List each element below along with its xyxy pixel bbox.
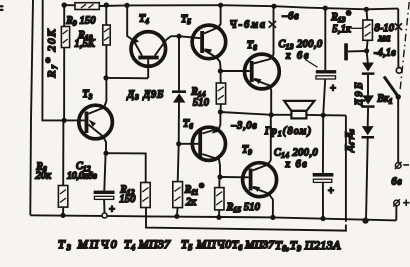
wire T3 emitter to R12 [106,153,146,182]
wire T4 base node [103,75,108,80]
svg-text:Т4 МП37: Т4 МП37 [124,237,171,252]
meter break x 4-6ma [269,21,277,28]
svg-text:Т9: Т9 [242,145,252,157]
resistor R14 (510) [216,71,225,112]
svg-text:+: + [109,205,116,216]
resistor R12 (150) [141,183,151,208]
chassis bar [344,43,366,60]
svg-text:5,1к: 5,1к [333,24,352,35]
node A T5 emitter / R14 / T8 base [218,68,223,73]
diode D3 (D9B) [172,36,186,144]
svg-text:20к: 20к [36,171,52,182]
diode D6 (D9B) [362,126,375,224]
svg-text:R7* 20К: R7* 20К [44,27,59,78]
svg-text:Д3 Д9Б: Д3 Д9Б [127,90,165,102]
transistor T6 (MP37) [192,112,225,177]
meter break x 8-10ma [395,23,402,30]
transistor T4 (MP37) [127,5,179,78]
wire top rail left stub [64,4,75,6]
wire switch to minus terminal [397,97,399,163]
transistor T8 (P213A) [245,6,280,115]
svg-text:+: + [328,186,335,197]
wire plus terminal to bottom rail [395,206,397,221]
svg-text:6в: 6в [392,177,403,188]
svg-text:Гр1(8ом): Гр1(8ом) [264,126,312,138]
wire bottom common rail [30,215,396,220]
wire output node to feedback drop [323,114,346,116]
svg-text:Т5: Т5 [181,14,191,26]
wire input lead to T3 base [42,0,84,120]
capacitor C13 (200,0x6v) [316,6,336,116]
switch Vk1 [384,68,402,100]
svg-text:R11*: R11* [184,183,204,197]
node top rail R7 tap [61,2,66,7]
diode D4 (D9B) [362,51,375,96]
resistor R13* (5,1k) [363,7,373,51]
node T6 collector / T9 base / R15 [217,174,222,179]
terminal minus [395,162,409,170]
node B R14 bottom / T6 emitter / output line [218,109,223,114]
resistor R9 (150) in top rail [75,3,99,10]
svg-text:Вк1: Вк1 [378,94,393,106]
crossing gap feedback over rail right [344,222,348,225]
resistor R11* (2k) [173,144,183,219]
svg-text:-4,1в: -4,1в [374,48,396,59]
svg-text:Т8: Т8 [247,40,257,52]
node T3 base junction [62,118,67,123]
left cropped fragment [0,5,3,11]
node T4 collector / T5 base / D3 [176,34,181,39]
svg-text:С14 200,0: С14 200,0 [274,148,318,160]
wire top rail corner to switch [397,9,399,68]
node output T8e/T9c/speaker [269,112,274,117]
resistor R7* (20K) from top rail [61,5,69,120]
svg-text:–6в: –6в [282,11,300,22]
wire left outer vertical to bottom rail [30,0,33,215]
wire top rail [99,5,398,9]
svg-text:+: + [330,84,337,95]
resistor R8 (20k) T3 base to rail [58,120,67,218]
svg-text:Т5 МПЧ0: Т5 МПЧ0 [181,237,232,252]
svg-text:Т6: Т6 [183,119,193,131]
wire T6 collector to T9 base [220,176,249,178]
terminal plus [393,199,409,207]
node speaker / C13 / C14 / feedback [321,113,326,118]
capacitor C14 (200,0x6v) [313,115,334,221]
svg-text:R15 510: R15 510 [226,202,260,214]
wire output node to speaker [271,114,291,116]
wire node A to T8 base [220,70,249,72]
node top rail T4 emitter [124,3,129,8]
svg-text:2к: 2к [186,197,196,208]
transistor T5 (MP40) [192,5,226,71]
svg-text:Д9Б: Д9Б [354,80,365,107]
svg-text:Д4–Д6: Д4–Д6 [344,130,356,153]
wire feedback R12 bottom to output node (crosses rail) [146,115,346,230]
wire to T5 base [179,36,200,38]
node ring terminal below C12 [102,213,107,218]
svg-text:х 6в: х 6в [285,159,309,170]
svg-text:1,5К: 1,5К [75,39,97,50]
node top rail T8 collector [271,4,276,9]
wire T6 base lead [179,143,199,145]
leader C13 label [305,60,317,68]
svg-text:10,0х6в: 10,0х6в [67,172,97,182]
node T6 base / D3 chain [176,141,181,146]
svg-text:–3,0в: –3,0в [231,121,258,132]
transistor T3 (MP40) [79,101,113,153]
transistor T9 (P213A) [243,115,277,220]
wire speaker to C13/C14 node [306,114,323,116]
wire node B to output node [220,112,271,115]
diode D5 (D9B) [362,95,375,126]
capacitor C12 (10,0x6v) electrolytic [94,153,115,213]
svg-text:Т3 МПЧ0: Т3 МПЧ0 [58,237,119,252]
svg-text:Т4: Т4 [139,14,149,26]
svg-text:R13*: R13* [331,10,352,24]
svg-text:Т6 МП37: Т6 МП37 [232,239,274,252]
resistor R10 (1.5K) from top rail [103,2,110,101]
node bias -4,1v junction [364,48,369,53]
svg-text:ма: ма [378,33,391,44]
svg-text:510: 510 [193,98,209,109]
svg-text:С13 200,0: С13 200,0 [279,39,323,51]
resistor R15 (510) [215,177,224,220]
svg-text:Ч-6ма: Ч-6ма [230,20,268,31]
dash-dot link line [400,2,409,91]
svg-text:Т8,Т9 П213А: Т8,Т9 П213А [275,238,341,253]
node T3 emitter junction [103,151,108,156]
speaker Gr1 (8 ohm) [284,101,314,119]
node top rail T5 collector [218,3,223,8]
svg-text:Т3: Т3 [83,89,93,101]
svg-text:150: 150 [120,194,136,205]
